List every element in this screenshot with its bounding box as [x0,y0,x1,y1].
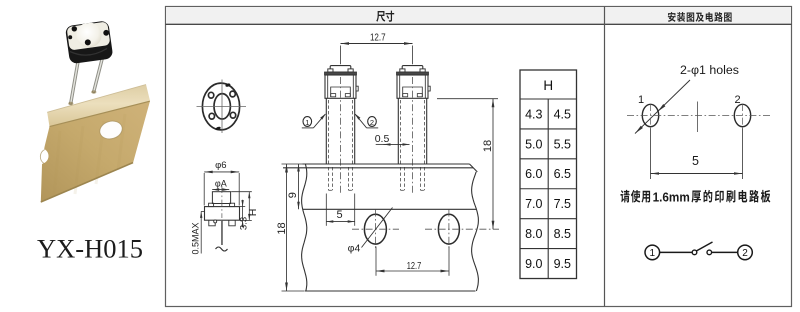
svg-text:0.5MAX: 0.5MAX [191,222,201,254]
svg-text:2: 2 [734,94,740,106]
svg-text:12.7: 12.7 [407,261,422,272]
svg-text:φ6: φ6 [215,160,226,171]
svg-text:1: 1 [638,94,644,106]
svg-text:0.5: 0.5 [375,133,390,145]
svg-text:2: 2 [370,118,374,127]
svg-text:H: H [543,78,553,93]
svg-text:5.5: 5.5 [554,137,571,151]
svg-text:3.3: 3.3 [239,217,250,230]
svg-text:7.5: 7.5 [554,197,571,211]
svg-text:2-φ1 holes: 2-φ1 holes [680,65,739,77]
svg-text:φ4: φ4 [348,243,361,255]
svg-text:18: 18 [482,140,494,152]
svg-text:8.5: 8.5 [554,227,571,241]
svg-text:1: 1 [650,248,656,259]
svg-text:7.0: 7.0 [525,197,542,211]
svg-text:9.0: 9.0 [525,257,542,271]
svg-text:4.3: 4.3 [525,107,542,121]
svg-text:9.5: 9.5 [554,257,571,271]
svg-text:4.5: 4.5 [554,107,571,121]
svg-text:12.7: 12.7 [370,32,386,43]
svg-text:1: 1 [305,118,309,127]
svg-text:6.0: 6.0 [525,167,542,181]
svg-text:5: 5 [336,209,342,221]
svg-text:6.5: 6.5 [554,167,571,181]
svg-text:5.0: 5.0 [525,137,542,151]
svg-text:9: 9 [287,192,299,198]
svg-text:2: 2 [742,248,748,259]
svg-text:5: 5 [692,154,699,168]
svg-text:18: 18 [276,222,288,234]
svg-text:φA: φA [215,179,227,189]
svg-text:YX-H015: YX-H015 [37,234,143,264]
svg-text:H: H [247,209,259,217]
svg-text:1.6mm: 1.6mm [653,189,690,204]
svg-text:8.0: 8.0 [525,227,542,241]
